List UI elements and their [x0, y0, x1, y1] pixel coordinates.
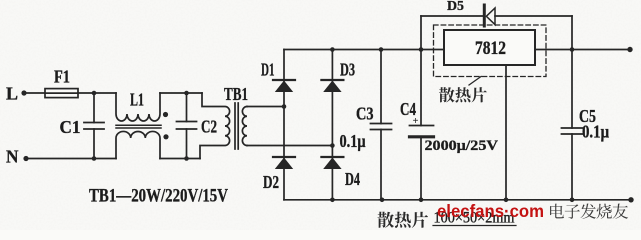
node: C1 top junction	[92, 91, 97, 96]
node: AC tap right	[330, 143, 335, 148]
watermark: chinese brand text	[550, 204, 628, 219]
svg-text:TB1: TB1	[224, 84, 248, 104]
diode D4	[321, 157, 360, 189]
diode D1	[261, 59, 295, 92]
wire: secondary bottom to bridge	[247, 145, 332, 147]
svg-text:D5: D5	[447, 0, 464, 13]
svg-text:C1: C1	[60, 117, 81, 137]
node	[419, 47, 424, 52]
node	[330, 47, 335, 52]
node	[570, 198, 575, 203]
fuse F1	[45, 66, 78, 97]
wire: positive rail after regulator	[535, 49, 630, 51]
node	[419, 198, 424, 203]
terminal N	[6, 146, 29, 166]
svg-text:F1: F1	[54, 66, 70, 86]
node	[570, 47, 575, 52]
wire: D5 bypass loop	[421, 16, 572, 50]
diode D5	[447, 0, 495, 26]
svg-text:D4: D4	[345, 169, 360, 189]
capacitor C4 (electrolytic)	[400, 50, 499, 200]
heat sink pointer	[469, 77, 481, 86]
svg-text:N: N	[6, 146, 19, 166]
svg-text:D3: D3	[340, 59, 355, 79]
node: C2 bottom junction	[184, 156, 189, 161]
node: C2 top junction	[184, 91, 189, 96]
node	[379, 47, 384, 52]
node	[330, 198, 335, 203]
svg-text:0.1μ: 0.1μ	[582, 121, 610, 141]
svg-text:D2: D2	[263, 172, 279, 192]
transformer TB1	[200, 84, 248, 159]
regulator U1 7812	[444, 30, 535, 65]
wire: ground rail	[284, 199, 631, 201]
terminal L	[6, 83, 27, 103]
node	[504, 198, 509, 203]
svg-text:C3: C3	[356, 103, 374, 123]
label: heat sink size 100x50x2mm	[433, 210, 516, 227]
svg-text:elecfans·com: elecfans·com	[437, 201, 544, 221]
svg-text:L1: L1	[130, 89, 144, 109]
diode D2	[263, 157, 295, 192]
node: C1 bottom junction	[92, 156, 97, 161]
svg-text:L: L	[6, 83, 18, 103]
terminal: output return	[628, 197, 633, 202]
node	[380, 198, 385, 203]
terminal: +12V output	[627, 47, 632, 52]
svg-text:7812: 7812	[475, 37, 506, 58]
wire: secondary top to bridge	[247, 106, 284, 108]
diode D3	[321, 59, 355, 92]
wire: bridge left branch	[283, 50, 285, 200]
label: heat sink (lower)	[377, 212, 428, 228]
svg-text:2000μ/25V: 2000μ/25V	[425, 137, 499, 154]
svg-text:D1: D1	[261, 59, 275, 79]
capacitor C1	[60, 93, 105, 159]
wire: bridge right branch	[331, 50, 333, 200]
wire	[160, 92, 202, 94]
wire	[78, 92, 116, 94]
capacitor C3	[340, 50, 392, 200]
svg-text:C2: C2	[201, 116, 217, 136]
node: AC tap left	[282, 104, 287, 109]
label: heat sink (upper)	[439, 87, 487, 102]
svg-text:TB1—20W/220V/15V: TB1—20W/220V/15V	[89, 184, 228, 206]
wire: positive rail	[284, 49, 444, 51]
heat sink outline (dashed)	[434, 25, 547, 77]
wire: regulator ground pin	[505, 65, 507, 200]
wire	[160, 158, 200, 160]
capacitor C2	[177, 93, 218, 159]
svg-text:0.1μ: 0.1μ	[340, 131, 367, 151]
wire	[24, 92, 45, 94]
wire	[26, 158, 116, 160]
capacitor C5	[562, 50, 610, 200]
inductor L1 (common-mode choke)	[116, 89, 169, 158]
